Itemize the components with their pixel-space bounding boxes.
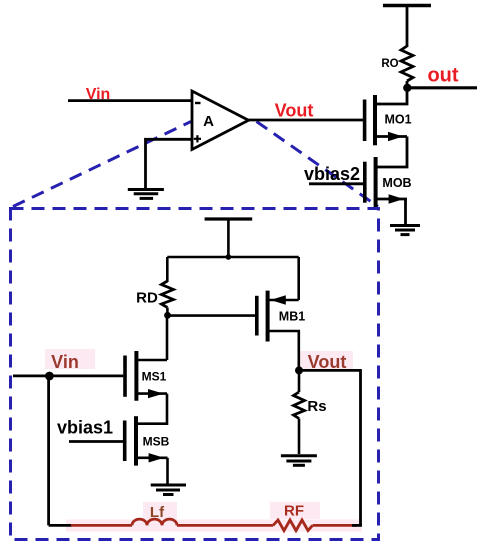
zoom callout line left [13, 122, 191, 207]
wire feedback (red) [71, 524, 132, 527]
node RD junction [164, 312, 171, 319]
wire Vout to Rs [298, 370, 301, 392]
wire Vout to right branch [299, 370, 361, 525]
resistor Rs [294, 392, 327, 419]
wire op-amp non-inverting input [146, 139, 193, 189]
svg-text:RD: RD [136, 290, 158, 307]
svg-text:Vin: Vin [51, 352, 79, 372]
power rail (top right) [383, 4, 431, 8]
resistor RD [136, 281, 173, 308]
svg-text:Vout: Vout [275, 101, 314, 121]
ground (MSB source) [151, 485, 186, 495]
dashed zoom box [11, 209, 379, 540]
svg-text:vbias1: vbias1 [57, 418, 113, 438]
transistor MO1 [365, 95, 412, 145]
wire rail horizontal [167, 256, 298, 259]
transistor MOB [365, 157, 412, 207]
zoom callout line right [257, 122, 379, 207]
wire feedback (red) right segment [313, 524, 358, 527]
highlight behind Lf label [143, 502, 177, 519]
wire MOB source to ground [404, 199, 407, 224]
wire box edge to MS1 gate [13, 374, 123, 377]
wire vbias2 to MOB gate [309, 182, 365, 185]
transistor MSB [125, 416, 170, 465]
wire MSB source to ground [166, 458, 169, 484]
wire vbias1 to MSB gate [69, 440, 125, 443]
wire RD to node [166, 308, 169, 316]
svg-text:MSB: MSB [143, 435, 170, 449]
svg-text:vbias2: vbias2 [304, 164, 360, 184]
svg-text:A: A [203, 113, 214, 130]
wire MO1 source to MOB drain [376, 137, 407, 168]
svg-text:MS1: MS1 [142, 370, 167, 384]
wire rail stub [227, 219, 230, 257]
wire Vin to op-amp inverting input [68, 99, 192, 102]
wire MS1 source to MSB drain [136, 394, 167, 424]
ground (Rs) [281, 456, 317, 466]
highlight band along feedback wire [66, 520, 362, 532]
wire MB1 source to rail [297, 257, 300, 300]
transistor MS1 [125, 351, 167, 401]
wire Vin node down to feedback [47, 376, 50, 525]
wire Rs to ground [298, 419, 301, 455]
node out [403, 84, 411, 92]
wire rail to RD [166, 257, 169, 282]
wire rail to RO [406, 6, 409, 48]
wire out node to MO1 drain [375, 88, 407, 104]
wire MB1 drain to Vout node [268, 331, 299, 370]
wire RO to out node [406, 81, 409, 88]
wire out node to right edge [407, 86, 477, 89]
highlight behind RF label [270, 502, 320, 519]
node rail junction [226, 254, 232, 260]
wire MS1 drain to RD node [166, 315, 169, 360]
svg-text:MOB: MOB [382, 176, 411, 190]
node Vin junction [45, 372, 54, 381]
node Vout junction [295, 366, 303, 374]
wire feedback left segment [49, 524, 72, 527]
wire feedback right corner [352, 524, 362, 527]
svg-text:MB1: MB1 [279, 310, 305, 324]
svg-text:out: out [427, 65, 458, 87]
transistor MB1 [257, 291, 305, 342]
wire feedback (red) middle [177, 524, 273, 527]
op-amp U1 A [192, 91, 249, 150]
wire RD node to MB1 gate [168, 314, 257, 317]
ground (MOB source) [390, 226, 420, 235]
power rail (inside box) [205, 217, 253, 220]
svg-text:MO1: MO1 [384, 113, 411, 127]
highlight behind Vin node label [45, 349, 95, 369]
svg-text:RO: RO [381, 58, 398, 70]
highlight behind Vout node label [300, 351, 353, 369]
resistor RO [381, 46, 413, 81]
inductor Lf [132, 504, 177, 525]
svg-text:Lf: Lf [150, 504, 165, 521]
wire op-amp output / Vout net [249, 119, 364, 122]
ground (op-amp + input) [128, 190, 164, 199]
svg-text:RF: RF [284, 503, 304, 520]
svg-text:Rs: Rs [307, 398, 326, 415]
resistor RF [273, 503, 313, 531]
